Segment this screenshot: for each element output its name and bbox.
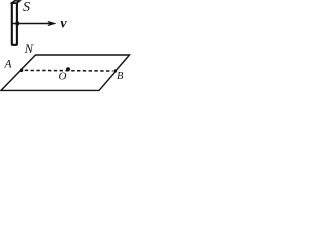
node O dot bbox=[66, 67, 70, 71]
plane (parallelogram) bbox=[1, 55, 130, 90]
dashed line A O B bbox=[25, 69, 113, 72]
svg-text:B: B bbox=[117, 71, 124, 82]
node A dot bbox=[20, 69, 24, 73]
bar magnet top face bbox=[12, 1, 20, 3]
junction blob bbox=[16, 22, 19, 26]
bar magnet front face bbox=[12, 3, 17, 45]
velocity arrow wire bbox=[12, 23, 51, 25]
svg-text:O: O bbox=[59, 71, 67, 83]
svg-text:N: N bbox=[24, 42, 34, 56]
svg-text:A: A bbox=[4, 59, 13, 71]
node B dot bbox=[114, 69, 118, 73]
svg-text:v: v bbox=[60, 16, 67, 31]
velocity arrowhead bbox=[48, 21, 56, 26]
svg-text:S: S bbox=[23, 0, 30, 15]
